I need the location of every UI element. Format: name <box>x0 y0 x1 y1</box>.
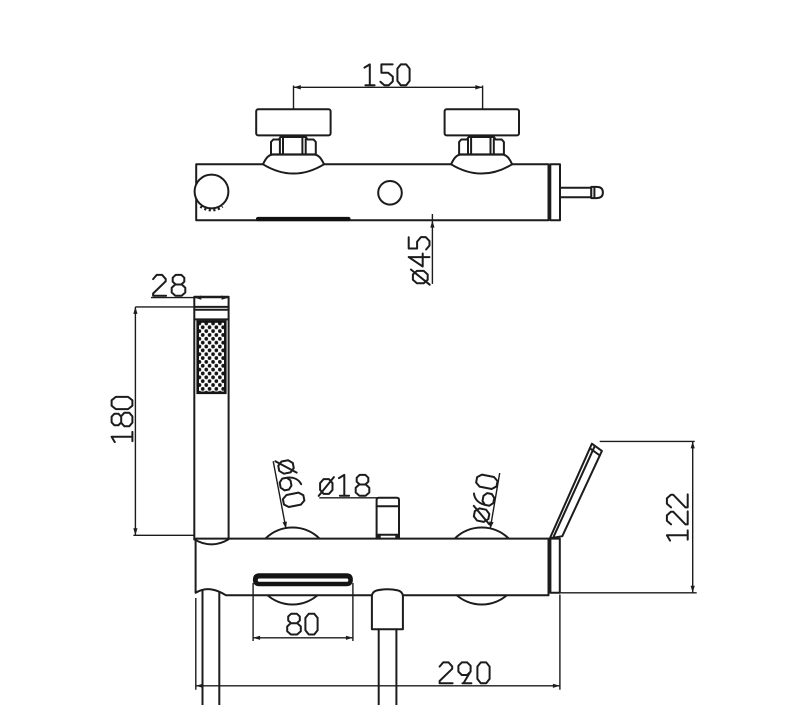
mixer bar body (front view) <box>196 539 549 596</box>
left escutcheon flange <box>256 109 330 135</box>
lever handle (front view) <box>550 444 602 539</box>
left hex nut <box>271 137 316 154</box>
left Ø60 leader <box>273 461 286 529</box>
left temperature knob <box>195 175 229 209</box>
end cap (front view) <box>550 539 559 593</box>
wand top rim lines <box>194 307 228 320</box>
text 290 <box>440 662 490 683</box>
hose connector dome (in front of bar) <box>372 589 403 629</box>
wand cradle arc on bar <box>194 539 228 544</box>
right escutcheon circle (behind bar) <box>443 528 520 605</box>
text 180 (rotated) <box>112 397 133 442</box>
dimension 28 <box>151 297 229 299</box>
dimension Ø45 leader <box>431 214 433 284</box>
right hex nut <box>459 137 504 154</box>
text 28 <box>153 275 185 296</box>
dimension 80 <box>253 637 353 639</box>
left connector bell <box>263 155 324 174</box>
text Ø18 <box>319 475 370 496</box>
dimension 122 <box>560 441 697 592</box>
text 122 (rotated) <box>667 494 688 540</box>
text 80 <box>287 614 317 635</box>
trim button on bar <box>378 181 402 205</box>
right escutcheon flange <box>445 109 519 135</box>
handle tip <box>591 187 603 198</box>
handle rod (top view) <box>560 188 591 198</box>
spout box side lines <box>253 583 353 641</box>
text Ø60 right (rotated) <box>469 474 499 525</box>
right connector bell <box>451 155 512 174</box>
text Ø45 (rotated) <box>409 237 430 285</box>
mixer bar body (side view) <box>196 164 548 220</box>
hand shower wand body <box>194 297 228 540</box>
dimension Ø18 leader <box>319 497 377 499</box>
handle tip ring <box>593 187 595 198</box>
end cap (top view) <box>550 164 560 220</box>
lever inner line <box>553 446 595 538</box>
text Ø60 left (rotated) <box>275 457 305 508</box>
right Ø60 leader <box>490 473 500 529</box>
dimension 290 <box>196 595 560 690</box>
right nut facet lines <box>468 138 494 154</box>
left nut facet lines <box>280 138 306 154</box>
text 150 <box>364 64 409 85</box>
wand tail below bar <box>203 591 220 705</box>
Ø18 diverter knob <box>377 498 399 539</box>
waterfall spout capsule <box>253 573 353 586</box>
dimension 150 <box>294 86 483 110</box>
lever tip facet <box>590 448 600 455</box>
wand spray face (hatched) <box>198 322 226 393</box>
knurl on knob <box>201 206 222 210</box>
left escutcheon circle (behind bar) <box>254 528 331 605</box>
shower hose <box>379 629 397 705</box>
dimension 180 <box>133 307 194 535</box>
waterfall slot (side view thick line) <box>258 217 349 221</box>
